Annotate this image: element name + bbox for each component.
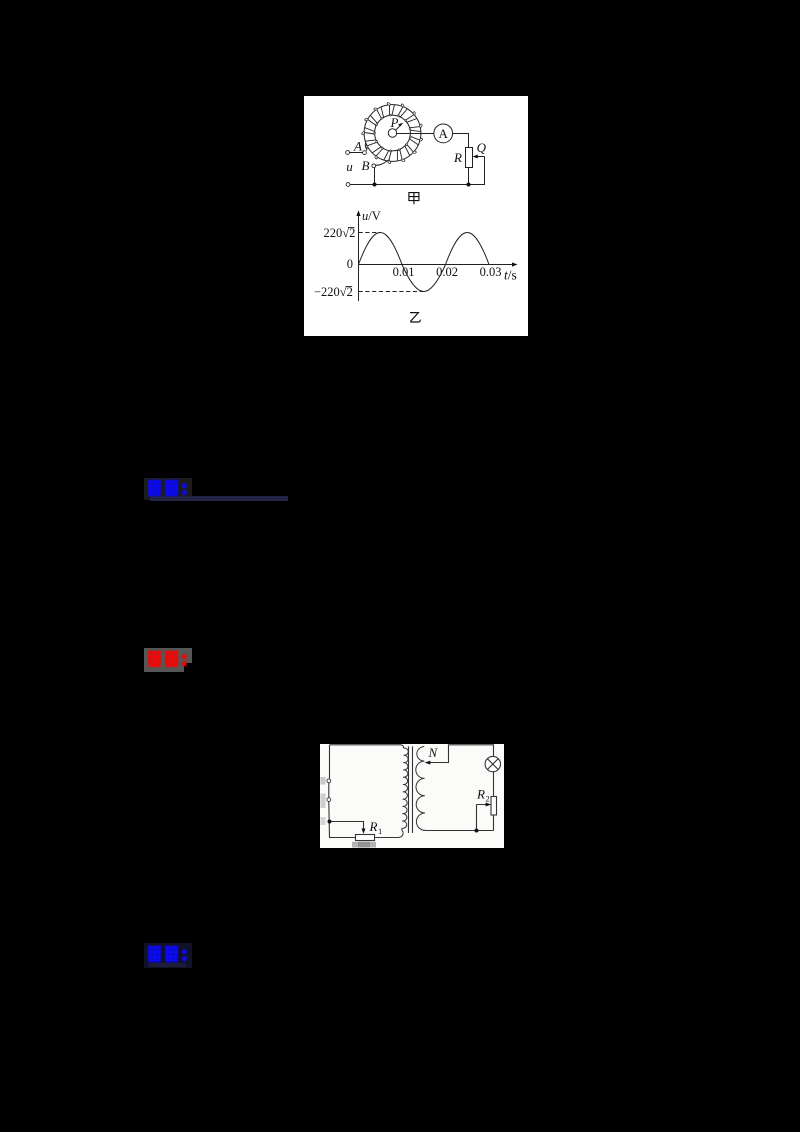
R1 arrowhead [362, 829, 366, 834]
secondary coil [416, 747, 425, 831]
N tap wire [426, 745, 494, 763]
R2 wiper wire [477, 805, 489, 831]
h axis [359, 264, 515, 266]
wiper hub circle [388, 129, 396, 137]
svg-text:N: N [427, 745, 438, 760]
Q wiper arrow wire [469, 157, 485, 185]
dashed trough line [359, 291, 424, 293]
junction dot R-bus [467, 183, 471, 187]
wire ammeter to corner and down to R [453, 134, 469, 148]
left vertical wire upper [328, 745, 331, 798]
terminal circle A tap [363, 151, 367, 155]
R2 bottom to bus [493, 815, 495, 831]
R2 arrowhead [486, 803, 492, 807]
junction dot left [328, 820, 332, 824]
R2 body [491, 797, 497, 816]
wiper arrowhead dot [398, 123, 403, 127]
blue tag 2 [144, 943, 192, 968]
R1 body [356, 835, 375, 841]
secondary bottom to bus [425, 830, 494, 832]
left vertical wire lower + bottom corner [329, 802, 356, 838]
svg-text:R: R [369, 819, 378, 834]
Q arrowhead [472, 155, 477, 159]
svg-text:A: A [439, 126, 449, 141]
svg-text:R: R [453, 150, 462, 165]
N tap arrowhead [425, 761, 431, 765]
underline bar 1 [150, 496, 288, 501]
input terminal circle lower [327, 798, 331, 802]
svg-text:0.01: 0.01 [393, 265, 415, 279]
sine curve [359, 232, 490, 291]
wiper arm P arrow [395, 125, 401, 131]
dashed peak line [359, 232, 381, 234]
v axis arrowhead [356, 210, 360, 216]
A tap curve into winding [365, 143, 367, 151]
primary coil [401, 745, 409, 833]
terminal circle B [372, 164, 376, 168]
junction dot B-bus [373, 183, 377, 187]
red tag [144, 648, 184, 672]
terminal circle lower-left [346, 183, 350, 187]
svg-text:1: 1 [378, 826, 382, 836]
lamp to R2 wire [493, 772, 495, 797]
svg-text:u: u [346, 159, 353, 174]
svg-text:A: A [353, 139, 362, 154]
svg-text:0.03: 0.03 [480, 265, 502, 279]
core lines [409, 746, 413, 833]
upper input wire [350, 152, 363, 154]
svg-text:−220√2: −220√2 [314, 285, 353, 299]
winding bands [364, 105, 421, 161]
B vertical lead down to bus [374, 168, 376, 185]
junction dot R2 bottom [475, 829, 479, 833]
svg-text:Q: Q [477, 140, 487, 155]
svg-text:0: 0 [347, 257, 353, 271]
gray shadow under R1 [352, 842, 376, 848]
lamp [485, 756, 500, 771]
svg-text:P: P [390, 115, 399, 130]
figure box jia/yi (autotransformer circuit + voltage graph) [304, 96, 528, 336]
svg-text:R: R [476, 787, 485, 802]
svg-text:2: 2 [486, 794, 490, 804]
ammeter A circle [434, 124, 453, 143]
figure box (transformer circuit) [320, 744, 504, 848]
resistor R body [466, 148, 473, 168]
input terminal circle upper [327, 779, 331, 783]
blue tag 1 [144, 478, 192, 500]
bottom bus wire [350, 184, 484, 186]
label yi drawn glyph [410, 313, 420, 322]
svg-text:u/V: u/V [362, 209, 381, 223]
v axis [358, 214, 360, 301]
wire dot to R1 arrow [330, 822, 364, 832]
label jia drawn glyph [409, 193, 419, 205]
winding end loops [387, 102, 391, 106]
gray edge marks [320, 777, 325, 785]
toroidal autotransformer outer circle [364, 105, 421, 162]
B tap curve into winding [376, 160, 390, 166]
output wire hub to ammeter [397, 133, 434, 135]
wire R1 to primary bottom [375, 833, 404, 838]
R bottom lead [468, 168, 470, 185]
svg-text:0.02: 0.02 [436, 265, 458, 279]
svg-text:B: B [362, 158, 370, 173]
svg-text:t/s: t/s [504, 268, 517, 283]
toroidal autotransformer inner circle [375, 115, 411, 151]
top wire primary [330, 744, 402, 746]
terminal circle upper-left [346, 151, 350, 155]
h axis arrowhead [512, 262, 518, 266]
svg-text:220√2: 220√2 [324, 226, 356, 240]
